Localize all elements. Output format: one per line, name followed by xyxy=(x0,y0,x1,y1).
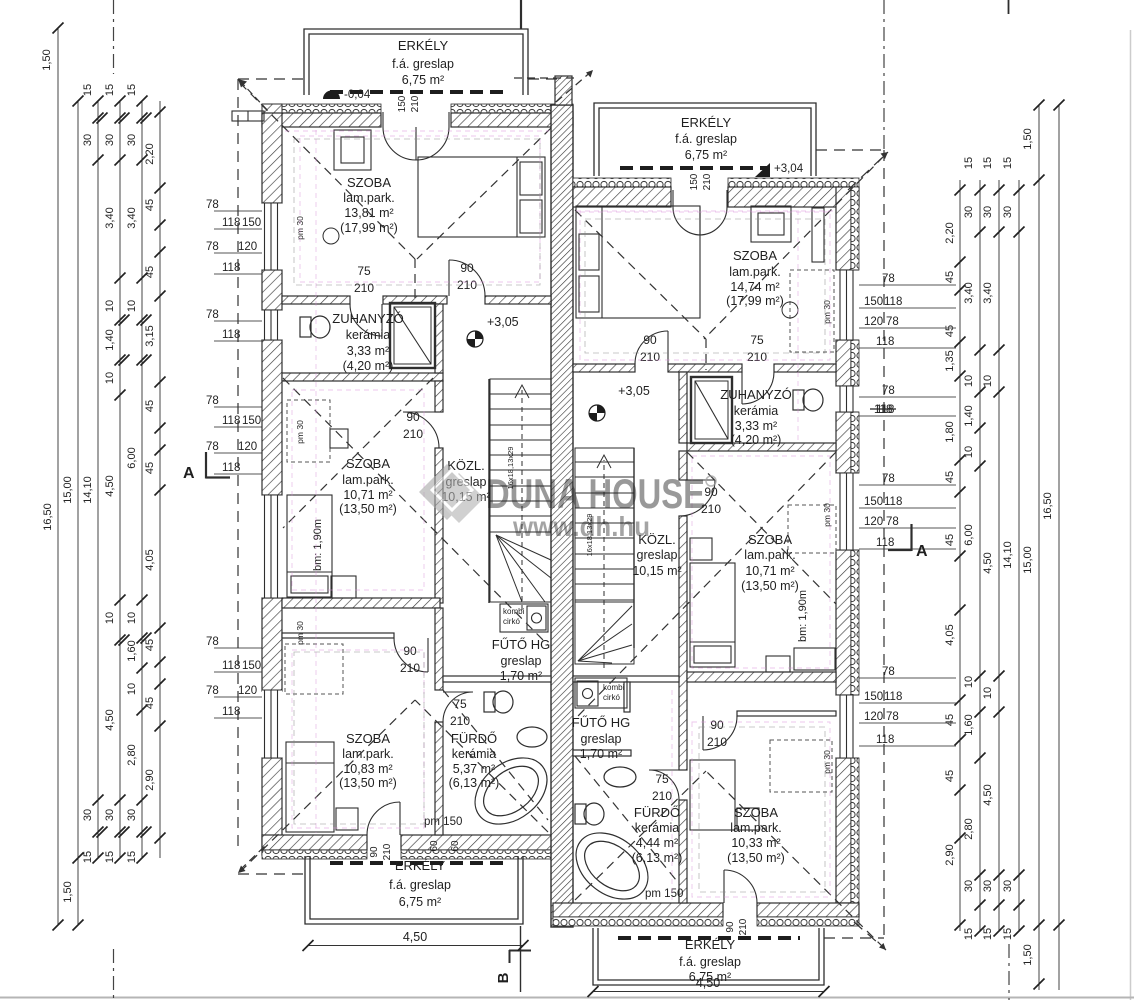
room label fűtő hg left-unit xyxy=(492,637,551,683)
svg-text:15: 15 xyxy=(104,851,116,863)
dimension 4,50 bottom-left xyxy=(303,930,529,951)
cupboard right wall top szoba xyxy=(812,208,824,262)
wall left-unit bottom with balcony door opening xyxy=(262,835,553,859)
svg-text:3,15: 3,15 xyxy=(144,325,156,346)
wall left-unit top (with insulation dots), balcony-door opening xyxy=(262,104,573,127)
axis line right top xyxy=(883,0,885,158)
room label közl. right-unit xyxy=(632,532,681,578)
svg-text:14,10: 14,10 xyxy=(82,476,94,504)
wall right-unit top (insulation dots above), balcony-door opening xyxy=(573,178,859,207)
svg-text:kerámia: kerámia xyxy=(452,747,497,761)
plaster dashed offset top szoba right xyxy=(585,219,825,353)
svg-text:pm 30: pm 30 xyxy=(822,503,832,527)
svg-text:4,50: 4,50 xyxy=(696,976,720,990)
svg-text:45: 45 xyxy=(144,462,156,474)
svg-text:ZUHANYZÓ: ZUHANYZÓ xyxy=(332,311,404,326)
svg-text:210: 210 xyxy=(652,789,672,803)
svg-text:(17,99 m²): (17,99 m²) xyxy=(726,294,784,308)
svg-text:45: 45 xyxy=(944,325,956,337)
phantom wardrobe dashed top szoba right xyxy=(790,270,834,352)
svg-text:10: 10 xyxy=(104,300,116,312)
section mark B xyxy=(495,950,531,983)
lamp circle top szoba right xyxy=(782,302,798,318)
svg-text:30: 30 xyxy=(104,134,116,146)
svg-text:10: 10 xyxy=(982,687,994,699)
svg-text:+3,05: +3,05 xyxy=(487,315,519,329)
svg-text:bm: 1,90m: bm: 1,90m xyxy=(797,590,809,642)
door left-unit szoba-hall xyxy=(449,260,485,296)
svg-text:15: 15 xyxy=(1002,157,1014,169)
svg-text:f.á. greslap: f.á. greslap xyxy=(675,132,737,146)
room label szoba top right-unit xyxy=(726,248,784,308)
svg-text:pm 150: pm 150 xyxy=(424,816,462,828)
svg-text:150: 150 xyxy=(242,217,261,229)
balcony top-left labels xyxy=(392,38,454,87)
svg-text:f.á. greslap: f.á. greslap xyxy=(392,57,454,71)
axis line left bottom xyxy=(113,949,115,1000)
svg-text:10: 10 xyxy=(126,300,138,312)
window right wall WR2 xyxy=(836,473,859,550)
svg-text:30: 30 xyxy=(982,206,994,218)
stair side wall right-unit xyxy=(633,448,635,648)
svg-text:120: 120 xyxy=(864,711,883,723)
roof diagonal left-unit top V xyxy=(240,83,551,300)
svg-text:10: 10 xyxy=(126,612,138,624)
svg-text:15: 15 xyxy=(82,851,94,863)
svg-text:30: 30 xyxy=(963,206,975,218)
balcony bottom-right threshold bold dashed xyxy=(618,936,800,940)
room label zuhanyzó left-unit xyxy=(332,311,404,373)
svg-text:lam.park.: lam.park. xyxy=(730,821,781,835)
roof diagonal left-unit middle xyxy=(283,378,548,645)
interior wall left-unit V1 (hall side) xyxy=(435,304,443,603)
svg-text:4,50: 4,50 xyxy=(104,475,116,496)
svg-text:78: 78 xyxy=(886,516,899,528)
door right-unit szoba-hall xyxy=(635,331,668,364)
door right-unit balcony bottom xyxy=(724,870,757,903)
svg-text:cirkó: cirkó xyxy=(603,693,620,702)
svg-text:FÜRDŐ: FÜRDŐ xyxy=(634,805,680,820)
svg-text:+3,04: +3,04 xyxy=(774,163,804,175)
svg-text:A: A xyxy=(916,543,928,560)
svg-text:16,50: 16,50 xyxy=(42,503,54,531)
svg-text:210: 210 xyxy=(400,661,420,675)
window left wall W1 xyxy=(262,203,282,270)
svg-text:78: 78 xyxy=(206,685,219,697)
overhang arrow top-right xyxy=(881,152,889,159)
WC left zuhanyzó xyxy=(300,316,330,338)
room label szoba top left-unit xyxy=(340,175,398,235)
svg-text:1,50: 1,50 xyxy=(1022,944,1034,965)
svg-text:1,50: 1,50 xyxy=(62,881,74,902)
svg-text:kerámia: kerámia xyxy=(346,328,391,342)
door labels 90/210 xyxy=(701,485,721,516)
svg-text:-0,04: -0,04 xyxy=(344,89,371,101)
svg-text:45: 45 xyxy=(144,639,156,651)
svg-text:1,70 m²: 1,70 m² xyxy=(500,669,542,683)
window leader labels left shower window xyxy=(206,309,262,341)
heating circuit magenta lines right-unit xyxy=(576,210,834,900)
beam stub at top-left corner xyxy=(232,111,264,121)
door labels 75/210 xyxy=(354,264,374,295)
section mark A left xyxy=(183,452,230,482)
svg-text:78: 78 xyxy=(206,636,219,648)
overhang corner arrow top-left xyxy=(240,81,270,113)
svg-text:75: 75 xyxy=(453,697,467,711)
svg-text:90: 90 xyxy=(725,921,736,933)
door right-unit middle szoba xyxy=(679,480,715,516)
svg-text:2,90: 2,90 xyxy=(944,844,956,865)
desk top szoba right-unit xyxy=(751,206,791,242)
svg-text:45: 45 xyxy=(944,770,956,782)
interior wall left-unit H1 (szoba/zuhanyzo-hall) xyxy=(282,296,551,304)
door labels 90/210 bottom balcony right xyxy=(725,918,749,935)
svg-text:SZOBA: SZOBA xyxy=(346,731,390,746)
svg-text:1,50: 1,50 xyxy=(1022,128,1034,149)
svg-text:bm: 1,90m: bm: 1,90m xyxy=(312,519,324,571)
svg-text:f.á. greslap: f.á. greslap xyxy=(679,955,741,969)
svg-text:30: 30 xyxy=(82,134,94,146)
kombi cirkó closet left-unit xyxy=(500,604,548,632)
wall right-unit right side with insulation dots outside xyxy=(836,187,859,903)
svg-text:FÜRDŐ: FÜRDŐ xyxy=(451,731,497,746)
svg-text:120: 120 xyxy=(238,685,257,697)
svg-text:120: 120 xyxy=(238,241,257,253)
svg-text:118: 118 xyxy=(874,404,892,416)
svg-text:210: 210 xyxy=(747,350,767,364)
svg-text:210: 210 xyxy=(403,427,423,441)
staircase left-unit winder xyxy=(490,532,551,602)
svg-text:90: 90 xyxy=(704,485,718,499)
svg-text:6,75 m²: 6,75 m² xyxy=(685,148,727,162)
bed bottom szoba left-unit xyxy=(286,742,358,832)
svg-text:1,70 m²: 1,70 m² xyxy=(580,747,622,761)
door right-unit fürdő xyxy=(649,770,679,800)
WC right zuhanyzó xyxy=(793,389,823,411)
staircase right-unit winder xyxy=(575,602,634,664)
lamp circle top szoba xyxy=(323,228,339,244)
svg-text:14,10: 14,10 xyxy=(1002,541,1014,569)
section line B bottom xyxy=(520,926,522,992)
svg-text:kerámia: kerámia xyxy=(734,404,779,418)
watermark registered mark xyxy=(706,476,716,486)
bed top szoba left-unit xyxy=(418,157,545,237)
svg-text:4,50: 4,50 xyxy=(403,930,427,944)
interior wall left-unit H3 (middle szoba bottom) xyxy=(282,598,440,608)
svg-text:210: 210 xyxy=(738,918,749,935)
dimension chain right line 4,50 segments xyxy=(998,180,1000,931)
svg-text:10: 10 xyxy=(963,375,975,387)
svg-text:30: 30 xyxy=(104,809,116,821)
level mark -0,04 xyxy=(323,89,371,101)
roof overhang outline right-unit xyxy=(816,150,888,950)
svg-text:B: B xyxy=(495,972,512,983)
svg-text:210: 210 xyxy=(707,735,727,749)
svg-text:lam.park.: lam.park. xyxy=(343,191,394,205)
dimension chain right line small segments xyxy=(959,180,961,931)
svg-text:3,40: 3,40 xyxy=(963,282,975,303)
wardrobe top szoba left-unit xyxy=(334,130,371,170)
door labels 90/210 xyxy=(640,333,660,364)
roof slope arrow top middle xyxy=(514,70,593,102)
interior wall left-unit V2 (fürdő left) xyxy=(435,608,443,835)
door left-unit zuhanyzó xyxy=(350,304,382,336)
balcony bottom-right ERKÉLY xyxy=(593,928,824,985)
window left wall W3 xyxy=(262,690,282,758)
svg-text:10: 10 xyxy=(104,612,116,624)
balcony top-right threshold bold dashed xyxy=(620,166,770,170)
balcony bottom-left threshold bold dashed xyxy=(330,861,505,865)
svg-text:78: 78 xyxy=(206,441,219,453)
level marker +3,05 right-unit xyxy=(589,384,650,421)
svg-text:78: 78 xyxy=(206,395,219,407)
balcony top-right labels xyxy=(675,115,737,162)
svg-text:2,20: 2,20 xyxy=(944,222,956,243)
svg-text:210: 210 xyxy=(410,95,421,112)
window right wall WR1 xyxy=(836,270,859,340)
svg-text:10: 10 xyxy=(104,372,116,384)
svg-text:greslap: greslap xyxy=(637,548,678,562)
window right wall WR3 xyxy=(836,695,859,758)
svg-text:3,40: 3,40 xyxy=(126,207,138,228)
svg-text:2,80: 2,80 xyxy=(126,744,138,765)
interior wall right-unit fűtő closet xyxy=(573,676,679,756)
window leader labels right window 3 xyxy=(859,666,956,746)
section mark A right xyxy=(888,524,928,560)
svg-text:(6,13 m²): (6,13 m²) xyxy=(449,776,500,790)
furniture right wall middle szoba xyxy=(766,648,835,672)
svg-text:(13,50 m²): (13,50 m²) xyxy=(727,851,785,865)
svg-text:210: 210 xyxy=(382,843,393,860)
svg-text:45: 45 xyxy=(144,400,156,412)
svg-text:(4,20 m²): (4,20 m²) xyxy=(343,359,394,373)
section line stub top right xyxy=(1008,0,1010,14)
svg-text:78: 78 xyxy=(206,309,219,321)
svg-text:150: 150 xyxy=(864,691,883,703)
svg-text:FŰTŐ HG: FŰTŐ HG xyxy=(572,715,631,730)
balcony bottom-left labels xyxy=(389,858,451,909)
window leader labels right window 1 xyxy=(859,273,956,348)
svg-text:6,75 m²: 6,75 m² xyxy=(399,895,441,909)
room label fürdő left-unit xyxy=(449,731,500,790)
interior wall right-unit H3R (middle szoba bottom) xyxy=(687,672,836,682)
svg-text:10,15 m²: 10,15 m² xyxy=(632,564,681,578)
nightstand middle szoba xyxy=(331,576,356,598)
plaster dashed offset bottom szoba left xyxy=(294,652,424,824)
svg-text:SZOBA: SZOBA xyxy=(733,248,777,263)
dimension chain left line 14,10 xyxy=(97,101,99,858)
plaster dashed offset top szoba left xyxy=(294,139,540,285)
wardrobe dashed middle szoba xyxy=(287,400,330,462)
room label fürdő right-unit xyxy=(632,805,683,865)
svg-text:150: 150 xyxy=(689,173,700,190)
svg-text:15,00: 15,00 xyxy=(62,476,74,504)
svg-text:ERKÉLY: ERKÉLY xyxy=(681,115,732,130)
svg-text:150: 150 xyxy=(864,496,883,508)
svg-text:cirkó: cirkó xyxy=(503,617,520,626)
svg-text:1,35: 1,35 xyxy=(944,350,956,371)
svg-text:120: 120 xyxy=(238,441,257,453)
vent labels 60/60 left fürdő xyxy=(429,840,461,852)
svg-text:150: 150 xyxy=(864,296,883,308)
strikethrough dim 110 right xyxy=(870,404,896,416)
plaster dashed offset bottom szoba right xyxy=(699,727,825,892)
dimension chain right line 15,00 xyxy=(1038,105,1040,990)
svg-text:78: 78 xyxy=(206,241,219,253)
room label szoba middle left-unit xyxy=(339,456,397,516)
nightstand middle szoba right xyxy=(690,538,712,560)
dimension chain left line 15,00 xyxy=(77,101,79,925)
svg-text:pm 30: pm 30 xyxy=(822,750,832,774)
window leader labels left window 1 xyxy=(206,199,262,274)
overhang arrow bottom-right xyxy=(879,943,886,950)
svg-text:45: 45 xyxy=(944,471,956,483)
window left wall shower xyxy=(262,310,282,340)
svg-text:ERKÉLY: ERKÉLY xyxy=(398,38,449,53)
svg-text:10: 10 xyxy=(963,446,975,458)
window leader labels left window 3 xyxy=(206,636,262,718)
section line B top xyxy=(520,0,522,29)
balcony top-left ERKÉLY xyxy=(304,29,528,95)
svg-text:lam.park.: lam.park. xyxy=(342,747,393,761)
svg-text:15: 15 xyxy=(82,84,94,96)
svg-text:ERKÉLY: ERKÉLY xyxy=(685,937,736,952)
svg-text:(6,13 m²): (6,13 m²) xyxy=(632,851,683,865)
wardrobe dashed bottom szoba right xyxy=(770,740,832,792)
svg-text:10,71 m²: 10,71 m² xyxy=(343,488,392,502)
svg-text:DUNA HOUSE: DUNA HOUSE xyxy=(486,470,705,517)
svg-text:15: 15 xyxy=(982,157,994,169)
bathtub right fürdő xyxy=(563,819,661,912)
svg-text:(13,50 m²): (13,50 m²) xyxy=(741,579,799,593)
svg-text:45: 45 xyxy=(944,534,956,546)
svg-text:30: 30 xyxy=(82,809,94,821)
window left wall W2 xyxy=(262,495,282,598)
roof diagonal right-unit top V xyxy=(575,156,884,370)
svg-text:3,33 m²: 3,33 m² xyxy=(735,419,777,433)
svg-text:greslap: greslap xyxy=(501,654,542,668)
party wall between units xyxy=(551,105,573,927)
svg-text:(13,50 m²): (13,50 m²) xyxy=(339,502,397,516)
dimension chain right line 14,10 xyxy=(1018,180,1020,931)
party wall chimney stub above roof xyxy=(555,76,572,105)
svg-text:118: 118 xyxy=(876,734,894,746)
room label szoba bottom left-unit xyxy=(339,731,397,790)
shower tray right zuhanyzó xyxy=(691,377,732,443)
svg-text:4,50: 4,50 xyxy=(982,552,994,573)
svg-text:lam.park.: lam.park. xyxy=(729,265,780,279)
door labels 90/210 xyxy=(403,410,423,441)
svg-text:SZOBA: SZOBA xyxy=(748,532,792,547)
svg-text:10: 10 xyxy=(963,676,975,688)
svg-text:90: 90 xyxy=(403,644,417,658)
svg-text:210: 210 xyxy=(354,281,374,295)
svg-text:78: 78 xyxy=(206,199,219,211)
svg-text:1,40: 1,40 xyxy=(963,405,975,426)
door right-unit bottom szoba xyxy=(703,716,737,750)
door labels 75/210 xyxy=(652,772,672,803)
svg-text:1,40: 1,40 xyxy=(104,329,116,350)
room label fűtő hg right-unit xyxy=(572,715,631,761)
roof overhang outline left-unit xyxy=(238,79,560,874)
interior wall right-unit H4R corridor-bottom szoba xyxy=(737,711,836,716)
svg-text:150: 150 xyxy=(242,415,261,427)
svg-text:2,20: 2,20 xyxy=(144,143,156,164)
svg-text:78: 78 xyxy=(886,711,899,723)
svg-text:120: 120 xyxy=(864,316,883,328)
svg-text:15,00: 15,00 xyxy=(1022,546,1034,574)
svg-text:greslap: greslap xyxy=(581,732,622,746)
svg-text:3,40: 3,40 xyxy=(982,282,994,303)
svg-text:45: 45 xyxy=(944,271,956,283)
bed top szoba right-unit xyxy=(576,206,700,318)
svg-text:kombi: kombi xyxy=(603,683,625,692)
svg-text:118: 118 xyxy=(884,496,902,508)
svg-text:210: 210 xyxy=(450,714,470,728)
WC right fürdő xyxy=(575,803,604,825)
interior wall right-unit H1R (szoba - hall/zuh) xyxy=(573,364,836,372)
svg-text:15: 15 xyxy=(963,928,975,940)
dimension chain left line 16,50 xyxy=(57,28,59,925)
interior wall left-unit H2 (zuhanyzo bottom) xyxy=(282,373,443,381)
page border bottom xyxy=(0,997,1134,999)
svg-text:30: 30 xyxy=(126,134,138,146)
svg-text:15: 15 xyxy=(104,84,116,96)
svg-text:www.dh.hu: www.dh.hu xyxy=(512,511,650,542)
svg-text:30: 30 xyxy=(982,880,994,892)
room label szoba middle right-unit xyxy=(741,532,799,593)
roof diagonal right-unit bottom V xyxy=(575,756,884,948)
svg-text:kombi: kombi xyxy=(503,607,525,616)
svg-text:16,50: 16,50 xyxy=(1042,492,1054,520)
svg-text:+3,05: +3,05 xyxy=(618,384,650,398)
svg-text:2,80: 2,80 xyxy=(963,818,975,839)
page border right xyxy=(1130,30,1132,1000)
door labels 75/210 xyxy=(450,697,470,728)
staircase left-unit walkline with arrow xyxy=(515,385,529,610)
svg-text:90: 90 xyxy=(406,410,420,424)
svg-text:f.á. greslap: f.á. greslap xyxy=(389,878,451,892)
svg-text:A: A xyxy=(183,465,195,482)
axis line right bottom xyxy=(1008,944,1010,1000)
svg-text:90: 90 xyxy=(710,718,724,732)
dimension 4,50 bottom-right xyxy=(588,976,830,997)
roof overhang arrow bottom-left xyxy=(238,866,246,874)
door labels 90/210 xyxy=(457,261,477,292)
wardrobe dashed bottom szoba xyxy=(285,644,343,694)
room label közl. left-unit xyxy=(441,458,490,504)
svg-text:4,50: 4,50 xyxy=(104,709,116,730)
watermark duna house logo diamond xyxy=(419,464,484,523)
roof diagonal right-unit middle xyxy=(578,452,836,716)
svg-text:78: 78 xyxy=(886,316,899,328)
svg-text:4,05: 4,05 xyxy=(144,549,156,570)
bed middle szoba right-unit xyxy=(690,563,735,667)
balcony top-right ERKÉLY xyxy=(594,103,816,176)
staircase right-unit walkline with arrow xyxy=(597,455,611,668)
svg-text:pm 150: pm 150 xyxy=(645,888,683,900)
svg-text:pm 30: pm 30 xyxy=(295,621,305,645)
wardrobe dashed middle szoba right xyxy=(788,505,836,553)
balcony bottom-right labels xyxy=(679,937,741,984)
svg-text:3,33 m²: 3,33 m² xyxy=(347,344,389,358)
dimension chain right line 16,50 xyxy=(1058,105,1060,990)
svg-text:30: 30 xyxy=(126,809,138,821)
level mark +3,04 xyxy=(755,163,804,177)
svg-text:lam.park.: lam.park. xyxy=(744,548,795,562)
svg-text:30: 30 xyxy=(1002,880,1014,892)
door left-unit bottom szoba xyxy=(394,638,428,672)
